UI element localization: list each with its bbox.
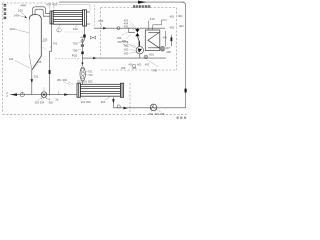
- E2 tube lines: [80, 87, 120, 94]
- svg-text:406: 406: [163, 36, 168, 40]
- svg-text:105: 105: [37, 60, 42, 64]
- small circle on discharge pipe: [20, 92, 24, 96]
- svg-text:702: 702: [88, 73, 93, 77]
- pump P2 circle: [150, 104, 157, 111]
- waste-heat box dashed border right: [176, 8, 178, 71]
- main transfer pipe: [82, 57, 166, 59]
- svg-text:104: 104: [9, 57, 14, 61]
- blower internal arrow: [138, 48, 142, 52]
- P2 vanes: [151, 104, 156, 109]
- E1 left header hatch: [51, 11, 53, 24]
- leaders 601-603: [130, 46, 137, 54]
- svg-text:102: 102: [73, 27, 78, 31]
- vapor pipe B outer: [43, 7, 50, 14]
- valve dark on vent: [81, 52, 83, 55]
- small bowtie near dashed riser: [90, 36, 95, 39]
- valve small circle on vent: [81, 40, 84, 43]
- svg-text:601: 601: [124, 43, 129, 47]
- waste-heat box dashed border bottom: [101, 69, 177, 71]
- flow arrow on main pipe: [93, 57, 96, 60]
- svg-text:405: 405: [124, 25, 129, 29]
- dashed riser x=94.5: [94, 5, 96, 28]
- control valve stem down: [136, 27, 138, 30]
- svg-text:304: 304: [40, 101, 45, 105]
- svg-text:301 302: 301 302: [57, 78, 68, 82]
- condensate line from E1 header: [50, 24, 52, 96]
- svg-text:402: 402: [170, 25, 175, 29]
- heat exchanger E2 shell: [80, 84, 120, 96]
- svg-text:407: 407: [165, 46, 170, 50]
- bottom-left discharge pipe: [10, 94, 77, 96]
- heat exchanger E1 left header: [50, 11, 53, 24]
- svg-text:140: 140: [14, 14, 19, 18]
- E2 left header hatch: [78, 83, 80, 97]
- vessel V1 left side (faint): [28, 20, 30, 55]
- small circle on bottom pipe: [117, 105, 120, 108]
- blower stem to pipe: [139, 54, 141, 58]
- outer system dashed border right: [129, 83, 131, 114]
- svg-text:103: 103: [43, 37, 48, 41]
- leader 103: [14, 29, 30, 33]
- dark stem above blower: [139, 42, 140, 47]
- label H01 arrow: [19, 12, 26, 17]
- svg-text:S40: S40: [153, 69, 158, 73]
- E2 right header hatch: [121, 83, 123, 97]
- leader 403: [49, 6, 54, 10]
- stem arrow down: [31, 79, 34, 83]
- W1 top line A: [148, 21, 150, 31]
- svg-text:402: 402: [179, 24, 184, 28]
- leader from labels to blower: [122, 44, 136, 47]
- filter F1 oval: [80, 67, 85, 81]
- leaders to control valve: [129, 21, 136, 31]
- bottom transfer pipe: [113, 107, 185, 109]
- vapor pipe A from vessel dome: [33, 7, 43, 16]
- svg-text:441: 441: [80, 35, 85, 39]
- waste-heat box dashed border top: [101, 7, 177, 9]
- svg-text:305: 305: [48, 100, 53, 104]
- junction drop line: [129, 28, 135, 32]
- vessel V1 cone left side: [29, 55, 32, 71]
- W1 right line: [165, 31, 167, 47]
- E1 tube lines: [53, 13, 82, 22]
- valve on condensate line (dark): [49, 70, 51, 74]
- svg-text:403: 403: [145, 63, 150, 67]
- P2 label leaders: [151, 110, 162, 113]
- svg-text:403: 403: [122, 39, 127, 43]
- svg-text:602: 602: [124, 47, 129, 51]
- vent line x=82.4: [81, 39, 83, 66]
- outer system dashed border left: [2, 3, 4, 114]
- vessel right side labels: [42, 40, 47, 42]
- svg-text:705: 705: [72, 48, 77, 52]
- valve on drain (dark): [83, 35, 86, 38]
- valve bowtie on vent: [81, 44, 84, 46]
- vapor pipe A inner line: [35, 9, 41, 15]
- discharge arrow left: [10, 93, 17, 96]
- svg-text:402: 402: [137, 63, 142, 67]
- waste heat unit W1 box: [145, 30, 160, 50]
- W1 top line B: [153, 20, 167, 30]
- vapor pipe B inner: [41, 9, 50, 16]
- cooling water top line y=2: [59, 1, 184, 3]
- flow arrow on discharge toward E2: [64, 93, 68, 96]
- svg-text:P02: P02: [72, 53, 78, 57]
- flow arrow on top line: [138, 1, 147, 4]
- svg-text:603: 603: [124, 51, 129, 55]
- svg-text:741: 741: [53, 41, 58, 45]
- valve on downcomer: [185, 89, 187, 93]
- P1 riser: [43, 87, 45, 92]
- P1 label leaders: [37, 97, 50, 101]
- hot gas pipe: [94, 27, 165, 29]
- E1 right header drain line: [84, 26, 86, 35]
- heat exchanger E2 right header: [120, 83, 123, 97]
- W1 zigzag coil: [148, 33, 159, 48]
- svg-text:303: 303: [149, 112, 154, 116]
- svg-text:703 301 302: 703 301 302: [77, 79, 93, 83]
- svg-text:201: 201: [34, 74, 39, 78]
- P1 vanes: [42, 93, 46, 97]
- E1 outlet stub top right: [87, 11, 91, 13]
- svg-text:702: 702: [73, 41, 78, 45]
- svg-text:401: 401: [170, 15, 175, 19]
- E1 bottom-left leader and label: [59, 24, 61, 28]
- exchanger E1 dashed enclosure top: [58, 5, 91, 11]
- dark valve right of W1: [171, 37, 173, 41]
- top-right downcomer pipe: [182, 2, 186, 108]
- heat exchanger E2 left header: [77, 83, 80, 97]
- pump P1 circle: [41, 92, 47, 98]
- svg-text:304: 304: [101, 100, 106, 104]
- svg-text:401: 401: [178, 14, 183, 18]
- outer system dashed border bottom: [3, 113, 187, 115]
- svg-text:104: 104: [86, 22, 91, 26]
- svg-text:304: 304: [154, 112, 159, 116]
- F1 outlet to E2: [82, 81, 84, 85]
- svg-text:408: 408: [166, 50, 171, 54]
- svg-text:N01: N01: [149, 53, 155, 57]
- svg-text:410: 410: [150, 17, 155, 21]
- svg-text:403 402: 403 402: [46, 2, 57, 6]
- figure number glyphs bottom-right: [177, 117, 187, 119]
- vessel V1 (evaporator) shell: [29, 15, 41, 71]
- svg-text:301 302: 301 302: [81, 100, 92, 104]
- heat exchanger E1 right header: [83, 10, 87, 26]
- waste-heat box dashed border left: [100, 8, 102, 58]
- svg-text:405: 405: [132, 66, 137, 70]
- E2 drain drop: [112, 97, 114, 108]
- waste-heat box CJK label blocks: [133, 5, 150, 8]
- hatch circle meter M1: [160, 46, 165, 51]
- heat exchanger E1 shell: [53, 10, 82, 24]
- junction circle: [117, 27, 120, 30]
- control valve dark bowtie vertical: [135, 29, 139, 36]
- svg-text:102: 102: [18, 9, 23, 13]
- E1 right header hatch: [84, 10, 86, 26]
- dashed stub left of main pipe: [55, 58, 79, 60]
- svg-text:103: 103: [10, 27, 15, 31]
- flow arrow on hot gas pipe: [103, 27, 106, 30]
- svg-text:404: 404: [121, 66, 126, 70]
- drain symbol circle on pipe: [144, 55, 148, 59]
- F1 internals: [81, 68, 84, 71]
- drain arrow down: [112, 99, 115, 103]
- svg-text:P06: P06: [98, 19, 103, 23]
- outer system dashed border top: [3, 2, 59, 4]
- vertical CJK title glyph blocks (left margin): [4, 4, 6, 19]
- page background: [0, 0, 191, 120]
- blower B1 circle: [136, 47, 143, 54]
- vessel bottom stem: [31, 70, 33, 95]
- svg-text:303: 303: [35, 101, 40, 105]
- svg-text:305: 305: [160, 112, 165, 116]
